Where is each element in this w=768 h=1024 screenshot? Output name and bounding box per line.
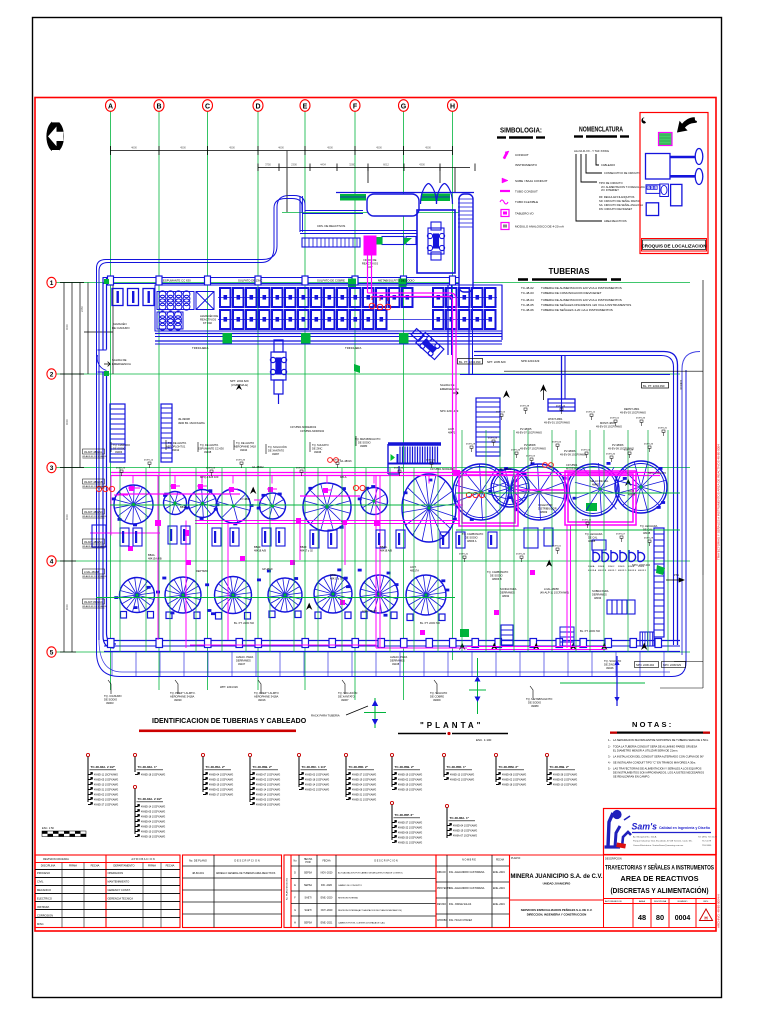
svg-text:(49-ALP-11 1SCFXAWG): (49-ALP-11 1SCFXAWG) <box>540 591 569 595</box>
svg-text:SCNDA PARA: SCNDA PARA <box>500 587 517 591</box>
sheet red inner frame <box>35 98 716 932</box>
svg-text:I/O: INTERNET: I/O: INTERNET <box>601 188 619 192</box>
svg-text:48013 F: 48013 F <box>638 570 647 572</box>
svg-text:TQ. SOLUCIÓN: TQ. SOLUCIÓN <box>338 690 357 695</box>
svg-text:49-EV-13: 49-EV-13 <box>556 406 566 408</box>
svg-text:G: G <box>401 103 407 110</box>
svg-text:49-BD-18 1SCFXAWG: 49-BD-18 1SCFXAWG <box>141 835 165 838</box>
svg-text:49-BD-11 1SCFXAWG: 49-BD-11 1SCFXAWG <box>94 773 118 776</box>
svg-text:49044: 49044 <box>240 448 248 452</box>
svg-text:49-EV-57: 49-EV-57 <box>332 460 342 462</box>
svg-text:49-EV-29: 49-EV-29 <box>466 444 476 446</box>
svg-text:4600: 4600 <box>131 146 137 150</box>
svg-text:DE COBRE: DE COBRE <box>430 695 444 699</box>
svg-text:TRINCHERA: TRINCHERA <box>345 346 361 350</box>
svg-text:49-EV-38: 49-EV-38 <box>520 406 530 408</box>
magenta lower network <box>90 476 606 650</box>
svg-text:SEPSA: SEPSA <box>304 872 312 875</box>
svg-text:49-EV-40: 49-EV-40 <box>516 554 526 556</box>
storage area outline and trench <box>155 285 502 355</box>
svg-text:49-BD-02 1SCFXAWG: 49-BD-02 1SCFXAWG <box>502 778 526 781</box>
svg-text:SE REALIZARAN EN CAMPO.: SE REALIZARAN EN CAMPO. <box>613 775 650 779</box>
svg-text:49-BD-21 1SCFXAWG: 49-BD-21 1SCFXAWG <box>398 841 422 844</box>
svg-text:BL. PT. 2203.740: BL. PT. 2203.740 <box>420 621 440 625</box>
svg-text:A: A <box>108 103 113 110</box>
svg-text:49067: 49067 <box>341 698 349 702</box>
svg-text:MODULO ANALOGICO DE 4-20 mA: MODULO ANALOGICO DE 4-20 mA <box>515 225 564 229</box>
svg-text:DE SODIO: DE SODIO <box>358 441 371 445</box>
svg-text:TRINCHERA: TRINCHERA <box>192 346 208 350</box>
svg-text:49080: 49080 <box>531 704 539 708</box>
svg-text:49-BD-03 1SCFXAWG: 49-BD-03 1SCFXAWG <box>305 773 329 776</box>
svg-text:49-BD-20 1SCFXAWG: 49-BD-20 1SCFXAWG <box>398 836 422 839</box>
svg-text:GP-4819: GP-4819 <box>262 567 273 571</box>
svg-text:49-AVT-4802NC: 49-AVT-4802NC <box>84 540 103 544</box>
svg-text:48-60-001: 48-60-001 <box>192 871 204 875</box>
nomenclatura tree <box>576 154 602 221</box>
svg-text:DE SODIO: DE SODIO <box>528 701 541 705</box>
svg-text:DERRAMES: DERRAMES <box>592 593 607 597</box>
svg-text:E: E <box>294 884 296 887</box>
title block <box>35 826 716 928</box>
svg-text:49-EV-07 1SCFXAWG: 49-EV-07 1SCFXAWG <box>520 447 546 451</box>
tank lower L4 <box>268 578 302 618</box>
svg-text:REV.: REV. <box>704 901 709 903</box>
rack cross bottom mid-right <box>560 682 645 684</box>
svg-text:49012: 49012 <box>172 448 180 452</box>
svg-text:LA INSTALACION DEL CONDUIT SER: LA INSTALACION DEL CONDUIT SERA ALTERNAD… <box>613 755 704 759</box>
forklift right (tilted) <box>409 326 444 360</box>
svg-text:PV-48008: PV-48008 <box>524 443 536 447</box>
svg-text:AUTORIZACION: AUTORIZACION <box>605 900 622 903</box>
svg-text:48013 D: 48013 D <box>618 570 627 572</box>
svg-text:N O M B R E: N O M B R E <box>462 859 476 862</box>
svg-text:DEPARTAMENTO: DEPARTAMENTO <box>113 864 134 868</box>
green ramps on upper wall <box>340 194 450 202</box>
svg-text:49-BD-02 1SCFXAWG: 49-BD-02 1SCFXAWG <box>94 793 118 796</box>
conduit list TC-48-05M. 2" <box>494 753 497 756</box>
svg-text:TC-48-05B. 2": TC-48-05B. 2" <box>253 765 273 769</box>
names table <box>436 855 510 928</box>
pallets right group <box>433 288 496 329</box>
svg-text:REPNT-4801: REPNT-4801 <box>624 407 640 411</box>
svg-text:ACIT.: ACIT. <box>448 427 455 431</box>
svg-text:49-BD-02 1SCFXAWG: 49-BD-02 1SCFXAWG <box>398 778 422 781</box>
svg-text:49-BD-04 1SCFXAWG: 49-BD-04 1SCFXAWG <box>141 820 165 823</box>
svg-text:PV-48005: PV-48005 <box>520 427 532 431</box>
svg-text:TODA LA TUBERIA CONDUIT SERA D: TODA LA TUBERIA CONDUIT SERA DE ALUMINIO… <box>613 745 697 749</box>
svg-text:AREA DE REACTIVOS: AREA DE REACTIVOS <box>620 874 698 883</box>
svg-text:3200A: 3200A <box>588 565 595 568</box>
top wall of storage (row1) <box>103 278 471 284</box>
logo red frame <box>604 809 717 855</box>
svg-text:4434: 4434 <box>320 163 326 167</box>
svg-text:48418 A/B: 48418 A/B <box>380 549 392 553</box>
svg-text:49-EV-03 1SCFXAWG: 49-EV-03 1SCFXAWG <box>620 411 646 415</box>
svg-text:49-BD-02 1SCFXAWG: 49-BD-02 1SCFXAWG <box>256 778 280 781</box>
svg-text:TQ. METABISULFITO: TQ. METABISULFITO <box>526 697 552 701</box>
svg-text:AEROPLGHT.01: AEROPLGHT.01 <box>166 445 186 449</box>
svg-text:5: 5 <box>50 650 54 657</box>
svg-text:AA-NJ-R-XX - Y TAF XXWG: AA-NJ-R-XX - Y TAF XXWG <box>574 149 609 153</box>
svg-text:TQ. LECHADA: TQ. LECHADA <box>640 524 658 528</box>
bottom wall band of hall <box>104 641 680 652</box>
conduit S-curve run <box>97 150 306 652</box>
tank lower L6 <box>360 575 398 619</box>
svg-text:CAMBIO DE CONCEPTO: CAMBIO DE CONCEPTO <box>338 884 362 887</box>
svg-text:MECANICO: MECANICO <box>37 888 51 892</box>
magenta main header <box>111 473 660 497</box>
svg-text:3200C: 3200C <box>608 566 615 568</box>
right building top wall <box>460 352 700 656</box>
svg-text:RACK PARA TUBERIA: RACK PARA TUBERIA <box>311 714 340 718</box>
svg-text:49-EV-12: 49-EV-12 <box>582 520 592 522</box>
svg-text:49-BA-07 1SCFXAWG: 49-BA-07 1SCFXAWG <box>453 834 477 837</box>
svg-text:BL. PT. 2204.090: BL. PT. 2204.090 <box>459 360 481 364</box>
svg-text:DERRAMES: DERRAMES <box>390 659 405 663</box>
svg-text:(DISCRETAS Y ALIMENTACIÓN): (DISCRETAS Y ALIMENTACIÓN) <box>611 886 709 895</box>
svg-text:PROCESO: PROCESO <box>37 871 50 875</box>
svg-text:49-BD-19 1SCFXAWG: 49-BD-19 1SCFXAWG <box>453 829 477 832</box>
svg-text:49-BD-08 1SCFXAWG: 49-BD-08 1SCFXAWG <box>256 803 280 806</box>
svg-text:TQ. SULFATO: TQ. SULFATO <box>312 443 329 447</box>
svg-text:C: C <box>655 187 657 190</box>
svg-text:DISCIPLINA: DISCIPLINA <box>41 864 56 868</box>
svg-text:ACIT.: ACIT. <box>628 489 635 493</box>
svg-text:SE INSTALARA CONDUIT TIPO "C": SE INSTALARA CONDUIT TIPO "C" EN TRAMOS … <box>613 761 696 765</box>
svg-text:OCT.-2020: OCT.-2020 <box>321 909 333 912</box>
svg-text:BL. PT. 2203.740: BL. PT. 2203.740 <box>234 621 254 625</box>
svg-text:49003: 49003 <box>115 450 123 454</box>
svg-text:ING. ALEJANDRO CASTORENA: ING. ALEJANDRO CASTORENA <box>449 887 485 890</box>
tank lower L7 <box>406 575 446 621</box>
rack cross symbol <box>364 698 386 728</box>
svg-text:COLECTOR: COLECTOR <box>538 503 552 507</box>
svg-text:LOAL-48118: LOAL-48118 <box>362 609 377 613</box>
svg-text:49030: 49030 <box>174 698 182 702</box>
tank upper U7 <box>361 488 388 515</box>
svg-text:FIRMA: FIRMA <box>148 864 156 868</box>
conduit list TC-48-05B. 2" <box>545 753 548 756</box>
svg-text:49-BD-27 1SCFXAWG: 49-BD-27 1SCFXAWG <box>94 803 118 806</box>
svg-text:49-EV-55: 49-EV-55 <box>526 456 536 458</box>
svg-text:1: 1 <box>50 280 54 287</box>
building <box>97 150 704 677</box>
svg-text:49-BD-19 1SCFXAWG: 49-BD-19 1SCFXAWG <box>398 783 422 786</box>
svg-text:LOAL-48058: LOAL-48058 <box>544 587 559 591</box>
storage labels above pallets <box>163 279 415 283</box>
svg-text:TC-48-05D. 2": TC-48-05D. 2" <box>349 765 369 769</box>
svg-text:49-BD-06 1SCFXAWG: 49-BD-06 1SCFXAWG <box>398 831 422 834</box>
svg-text:TQ. DE ALMTO.: TQ. DE ALMTO. <box>168 441 187 445</box>
svg-text:49-BD-18 1SCFXAWG: 49-BD-18 1SCFXAWG <box>141 815 165 818</box>
svg-text:C: C <box>205 103 210 110</box>
svg-text:49-BD-08 1SCFXAWG: 49-BD-08 1SCFXAWG <box>352 788 376 791</box>
svg-text:48006 A: 48006 A <box>467 539 477 543</box>
svg-text:BL. PT. 2204.090: BL. PT. 2204.090 <box>643 384 665 388</box>
svg-text:ENE.-2019: ENE.-2019 <box>493 903 505 906</box>
svg-text:G: G <box>294 909 296 912</box>
croquis black arrow <box>678 118 696 132</box>
svg-text:EMERGENCIA: EMERGENCIA <box>112 362 131 366</box>
svg-text:TC-48-05: TC-48-05 <box>521 303 534 307</box>
svg-text:49-BD-27 1SCFXAWG: 49-BD-27 1SCFXAWG <box>352 773 376 776</box>
conduit list TC-48-04A. 2 1/2" <box>133 785 136 788</box>
svg-text:49-EV-56: 49-EV-56 <box>488 438 498 440</box>
svg-text:49-BD-17 1SCFXAWG: 49-BD-17 1SCFXAWG <box>209 793 233 796</box>
svg-text:49-BD-14 1SCFXAWG: 49-BD-14 1SCFXAWG <box>141 805 165 808</box>
svg-text:CY-4809: CY-4809 <box>240 497 251 501</box>
interior wall + shelf right building <box>548 356 575 411</box>
tank lower L5 <box>314 575 352 619</box>
svg-text:Calidad en Ingeniería y Diseño: Calidad en Ingeniería y Diseño <box>659 826 710 830</box>
magenta tie-ins upper tanks <box>111 476 463 536</box>
svg-text:DERRAMES: DERRAMES <box>236 659 251 663</box>
upper building left wall <box>300 196 417 234</box>
svg-text:NUMERO: NUMERO <box>678 901 688 903</box>
svg-text:PLANTA:: PLANTA: <box>511 857 521 860</box>
svg-text:"PLANTA": "PLANTA" <box>420 721 483 730</box>
row bubbles <box>47 277 56 657</box>
Sam's blue emblem <box>605 810 632 847</box>
svg-text:SERVICIOS ESPECIALIZADOS PEÑOL: SERVICIOS ESPECIALIZADOS PEÑOLES S.A. DE… <box>521 907 593 912</box>
svg-text:TC-48-05B. 2": TC-48-05B. 2" <box>395 765 415 769</box>
svg-text:C07: C07 <box>367 265 373 269</box>
svg-text:DESCRIPCION: DESCRIPCION <box>605 858 622 861</box>
svg-text:48013 C: 48013 C <box>608 570 617 572</box>
svg-text:49108: 49108 <box>392 662 400 666</box>
svg-text:ARCHIVO: 48-80-0004-H: ARCHIVO: 48-80-0004-H <box>717 894 721 928</box>
magenta node box <box>364 236 376 255</box>
svg-text:SULFATO DE COBRE: SULFATO DE COBRE <box>317 279 345 283</box>
svg-text:MANTENIMIENTO: MANTENIMIENTO <box>108 880 130 884</box>
tank upper U4 <box>217 489 251 523</box>
north arrow <box>46 119 64 153</box>
svg-text:REVISION INTERNA (ACTUALIZACIO: REVISION INTERNA (ACTUALIZACION DE PLANO… <box>338 909 402 912</box>
svg-text:49-AVT-4802AB: 49-AVT-4802AB <box>84 480 103 484</box>
revisions table <box>284 855 436 928</box>
svg-text:49-BD-21 1SCFXAWG: 49-BD-21 1SCFXAWG <box>352 798 376 801</box>
approbation table <box>35 855 180 928</box>
svg-text:BB4Z.: BB4Z. <box>300 545 307 549</box>
apron ties <box>112 652 664 676</box>
ramp comb structure <box>388 444 441 474</box>
svg-text:TQ. CARBONATO: TQ. CARBONATO <box>462 532 483 536</box>
svg-text:GERENCY CONST.: GERENCY CONST. <box>108 888 131 892</box>
tanks <box>112 461 667 621</box>
svg-text:48009: 48009 <box>540 510 548 514</box>
svg-text:ING. HUGO CHAVEZ: ING. HUGO CHAVEZ <box>449 919 472 922</box>
svg-text:DERRAMES: DERRAMES <box>500 591 515 595</box>
svg-text:49-AVT-8402AC: 49-AVT-8402AC <box>84 600 103 604</box>
svg-text:49-EV-52: 49-EV-52 <box>610 418 620 420</box>
stairs ladder left 2 <box>161 404 172 462</box>
svg-text:49-BD-05 1SCFXAWG: 49-BD-05 1SCFXAWG <box>94 778 118 781</box>
svg-text:LOAL-48158: LOAL-48158 <box>84 570 99 574</box>
svg-text:49-EV-51: 49-EV-51 <box>552 546 562 548</box>
conduit list TC-48-05B. 2" <box>390 753 393 756</box>
svg-text:4600: 4600 <box>278 146 284 150</box>
tank right R2 <box>491 469 529 507</box>
svg-text:49-BD-04 1SCFXAWG: 49-BD-04 1SCFXAWG <box>352 783 376 786</box>
svg-text:TQ. CARBONATO: TQ. CARBONATO <box>487 570 508 574</box>
red wrench detail <box>616 843 626 849</box>
svg-text:TABLERO I/O: TABLERO I/O <box>515 212 534 216</box>
svg-text:FECHA: FECHA <box>496 859 505 862</box>
svg-text:Tel: (871) 717-1178: Tel: (871) 717-1178 <box>698 837 718 839</box>
svg-text:ELECTRICO: ELECTRICO <box>37 897 52 901</box>
svg-text:PV-48006: PV-48006 <box>612 443 624 447</box>
svg-text:TQ. SULFATO: TQ. SULFATO <box>604 659 621 663</box>
svg-text:49-BD-27 1SCFXAWG: 49-BD-27 1SCFXAWG <box>398 821 422 824</box>
svg-text:ENE.-2019: ENE.-2019 <box>493 871 505 874</box>
svg-text:48033: 48033 <box>594 596 602 600</box>
svg-text:TUBERIAS: TUBERIAS <box>549 267 591 276</box>
svg-text:SULFATO DE ZINC: SULFATO DE ZINC <box>238 279 262 283</box>
svg-text:49-BD-18 1SCFXAWG: 49-BD-18 1SCFXAWG <box>305 778 329 781</box>
svg-text:TQ. DE ALMTO.: TQ. DE ALMTO. <box>200 443 219 447</box>
svg-text:DE XANTATO: DE XANTATO <box>268 449 284 453</box>
svg-text:METABISULFITO DE SODIO: METABISULFITO DE SODIO <box>378 279 415 283</box>
svg-text:Correo Electrónico: VentasSams: Correo Electrónico: VentasSams@samsing.c… <box>633 844 684 847</box>
svg-text:3200D: 3200D <box>618 566 625 568</box>
row grid green lines 1-5 <box>56 283 690 653</box>
svg-text:49-EV-41: 49-EV-41 <box>459 554 469 556</box>
svg-text:49-BD-10 1SCFXAWG: 49-BD-10 1SCFXAWG <box>553 783 577 786</box>
svg-text:49-EV-10: 49-EV-10 <box>144 460 154 462</box>
dimension line top 1 <box>111 146 453 155</box>
svg-text:NPO. 2206.494: NPO. 2206.494 <box>636 663 654 667</box>
svg-text:WPT. 2204.629: WPT. 2204.629 <box>220 685 238 689</box>
svg-text:FECHA: FECHA <box>322 860 331 863</box>
storage: drum circles area <box>157 291 214 330</box>
svg-text:AREA: AREA <box>639 900 645 903</box>
svg-text:NOTAS:: NOTAS: <box>632 720 673 729</box>
svg-text:DE CAL: DE CAL <box>643 528 653 532</box>
svg-text:D: D <box>294 872 296 875</box>
conduit list TC-48-05B. 2" <box>248 753 251 756</box>
svg-text:TC-48-05M. 2": TC-48-05M. 2" <box>499 765 520 769</box>
svg-text:49-BD-21 1SCFXAWG: 49-BD-21 1SCFXAWG <box>94 788 118 791</box>
svg-text:1060000: 1060000 <box>679 380 682 390</box>
svg-text:IDENTIFICACION DE TUBERIAS Y C: IDENTIFICACION DE TUBERIAS Y CABLEADO <box>152 718 307 725</box>
svg-text:9000: 9000 <box>65 514 69 520</box>
svg-text:48032: 48032 <box>502 594 510 598</box>
svg-text:4.-: 4.- <box>608 761 611 765</box>
tank nozzles <box>112 462 665 617</box>
svg-text:Parque Industrial, Gral. Escob: Parque Industrial, Gral. Escobedo, 67128… <box>633 840 693 843</box>
NPT arrow center <box>236 384 242 390</box>
svg-text:FECHA: FECHA <box>166 864 175 868</box>
conduit list TC-48-06A. 1" <box>445 804 448 807</box>
forklift center hall <box>270 340 286 404</box>
tank right R4 <box>567 463 625 516</box>
svg-text:H: H <box>294 922 296 925</box>
tall right room of upper building <box>459 194 473 292</box>
tank lower L1 <box>120 578 155 619</box>
svg-text:SAETI: SAETI <box>305 909 312 912</box>
svg-text:DE ZINC: DE ZINC <box>312 447 323 451</box>
wall column squares row1 <box>108 276 456 285</box>
svg-text:4500: 4500 <box>327 146 333 150</box>
svg-text:49-EV-36: 49-EV-36 <box>511 450 521 452</box>
svg-text:NOV.-2020: NOV.-2020 <box>321 872 333 875</box>
svg-text:49-EV-31: 49-EV-31 <box>658 428 668 430</box>
inner room with forklift <box>417 210 455 273</box>
svg-text:49-EV-35: 49-EV-35 <box>236 460 246 462</box>
svg-text:9000: 9000 <box>65 604 69 610</box>
svg-text:SIMBOLOGIA:: SIMBOLOGIA: <box>500 128 542 135</box>
svg-text:49-BD-18 1SCFXAWG: 49-BD-18 1SCFXAWG <box>141 773 165 776</box>
svg-text:TQ. LECHADA: TQ. LECHADA <box>585 532 603 536</box>
svg-text:49-BD-13 1SCFXAWG: 49-BD-13 1SCFXAWG <box>94 783 118 786</box>
svg-text:AEROPHINE 3418: AEROPHINE 3418 <box>234 445 256 449</box>
leader elbows for bottom labels <box>108 436 533 698</box>
svg-text:TC-48-04A. 2 1/2": TC-48-04A. 2 1/2" <box>138 797 163 801</box>
svg-text:D E S C R I P C I O N: D E S C R I P C I O N <box>374 860 397 863</box>
svg-text:OPERACION: OPERACION <box>108 871 124 875</box>
svg-text:NPO. 2210.076: NPO. 2210.076 <box>648 471 666 475</box>
svg-text:49-BD-02 1SCFXAWG: 49-BD-02 1SCFXAWG <box>209 788 233 791</box>
svg-text:F: F <box>294 897 296 900</box>
conduit list TC-48-05A. 2" <box>201 753 204 756</box>
svg-text:4500: 4500 <box>376 146 382 150</box>
tank lower L3 <box>215 577 252 620</box>
svg-text:REVISION CRUZADA: REVISION CRUZADA <box>43 857 69 861</box>
svg-text:TQ. METABISULFITO: TQ. METABISULFITO <box>355 437 380 441</box>
svg-text:No. PLANO 48-60-001: No. PLANO 48-60-001 <box>286 877 289 900</box>
svg-text:2.-: 2.- <box>608 745 611 749</box>
svg-text:DIRECCION, INGENIERIA Y CONSTR: DIRECCION, INGENIERIA Y CONSTRUCCION <box>527 913 587 917</box>
svg-text:NPD 2204.629: NPD 2204.629 <box>521 359 540 363</box>
svg-text:TUBERIA DE ALIMENTACION 120 VC: TUBERIA DE ALIMENTACION 120 VCA A INSTRU… <box>541 298 622 302</box>
svg-text:48417 y 02: 48417 y 02 <box>330 577 343 581</box>
svg-text:48013 E: 48013 E <box>628 570 637 572</box>
svg-text:CAMBIOS POR EL CLIENTE (LECHAD: CAMBIOS POR EL CLIENTE (LECHADA DE CAL) <box>338 922 385 925</box>
svg-text:49048: 49048 <box>204 450 212 454</box>
svg-text:49-BD-19 1SCFXAWG: 49-BD-19 1SCFXAWG <box>398 788 422 791</box>
legends <box>497 127 645 313</box>
svg-text:48517A: 48517A <box>410 569 419 573</box>
modulo analogico box <box>501 223 509 230</box>
svg-text:SUBE / BAJA CONDUIT: SUBE / BAJA CONDUIT <box>515 179 548 183</box>
svg-text:ALMAC. PARA: ALMAC. PARA <box>236 655 254 659</box>
left margin label boxes <box>83 449 105 454</box>
svg-text:DIBUJO: DIBUJO <box>437 871 446 874</box>
svg-text:G1-48016: G1-48016 <box>340 459 352 463</box>
svg-text:REVISION INTERNA: REVISION INTERNA <box>338 897 358 900</box>
svg-text:ENE.-2020: ENE.-2020 <box>321 897 333 900</box>
bottom wall column squares <box>108 639 662 648</box>
svg-text:TC-48-03: TC-48-03 <box>521 291 534 295</box>
svg-text:C07-8501: C07-8501 <box>566 463 578 467</box>
croquis north dot <box>641 118 646 124</box>
svg-text:48013 B: 48013 B <box>598 570 607 572</box>
svg-text:B84A: B84A <box>180 505 187 509</box>
svg-text:CABLEADO: CABLEADO <box>601 163 615 167</box>
magenta box frames right tanks <box>459 471 636 526</box>
green blobs <box>354 364 665 637</box>
svg-text:INSTRUMENTO: INSTRUMENTO <box>515 163 538 167</box>
green small hatch verticals inside hall <box>120 430 668 652</box>
svg-text:TC-48-02A. 1": TC-48-02A. 1" <box>138 765 158 769</box>
svg-text:TC-48-02A. 2 1/2": TC-48-02A. 2 1/2" <box>91 765 116 769</box>
svg-text:5.-: 5.- <box>608 767 611 771</box>
svg-text:CONDUIT: CONDUIT <box>515 153 529 157</box>
svg-text:49-BD-12 1SCFXAWG: 49-BD-12 1SCFXAWG <box>209 778 233 781</box>
svg-text:49-EV-60: 49-EV-60 <box>552 442 562 444</box>
svg-text:AEROPHINE 3418A: AEROPHINE 3418A <box>170 695 195 699</box>
